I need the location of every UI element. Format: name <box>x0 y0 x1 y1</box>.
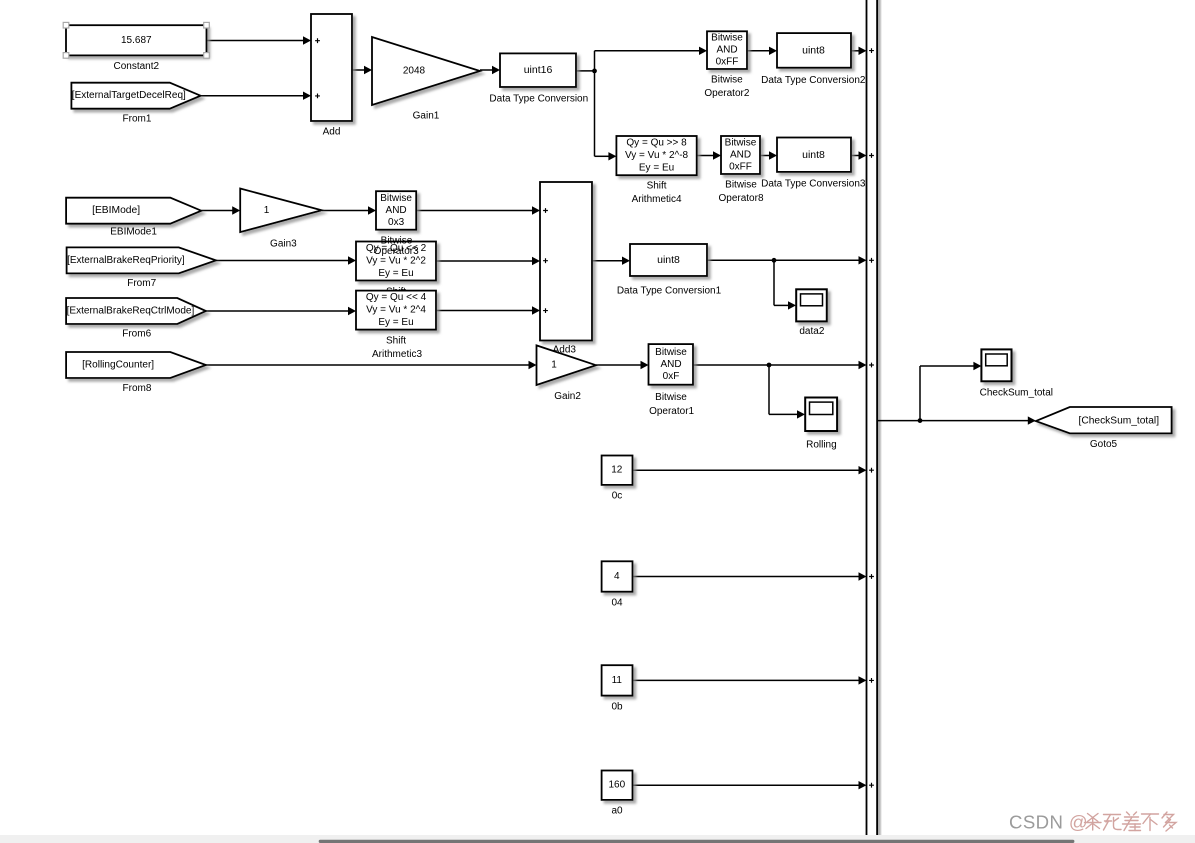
svg-text:From1: From1 <box>123 114 152 125</box>
svg-text:[EBIMode]: [EBIMode] <box>92 205 140 216</box>
svg-text:0xF: 0xF <box>663 371 680 382</box>
svg-text:Operator8: Operator8 <box>718 193 763 204</box>
svg-text:0b: 0b <box>611 701 623 712</box>
svg-text:0x3: 0x3 <box>388 217 405 228</box>
svg-text:160: 160 <box>608 780 625 791</box>
svg-text:EBIMode1: EBIMode1 <box>110 226 157 237</box>
svg-text:a0: a0 <box>611 806 623 817</box>
svg-text:Gain2: Gain2 <box>554 391 581 402</box>
svg-text:Arithmetic3: Arithmetic3 <box>372 349 422 360</box>
svg-text:[ExternalTargetDecelReq]: [ExternalTargetDecelReq] <box>72 90 186 101</box>
svg-text:Operator3: Operator3 <box>374 246 419 257</box>
svg-text:Data Type Conversion1: Data Type Conversion1 <box>617 285 722 296</box>
svg-text:Operator1: Operator1 <box>649 406 694 417</box>
svg-text:AND: AND <box>386 205 407 216</box>
svg-text:uint8: uint8 <box>657 254 680 266</box>
svg-text:Ey = Eu: Ey = Eu <box>378 317 413 328</box>
svg-text:Gain1: Gain1 <box>413 111 440 122</box>
svg-text:Data Type Conversion: Data Type Conversion <box>489 93 588 104</box>
svg-text:Gain3: Gain3 <box>270 239 297 250</box>
svg-text:Bitwise: Bitwise <box>725 180 757 191</box>
svg-text:data2: data2 <box>799 326 824 337</box>
svg-text:Vy = Vu * 2^-8: Vy = Vu * 2^-8 <box>625 150 689 161</box>
svg-text:Bitwise: Bitwise <box>711 33 743 44</box>
svg-text:From8: From8 <box>123 383 152 394</box>
svg-text:0xFF: 0xFF <box>729 162 752 173</box>
svg-text:Arithmetic4: Arithmetic4 <box>632 194 682 205</box>
svg-text:Qy = Qu >> 8: Qy = Qu >> 8 <box>626 138 687 149</box>
svg-text:Constant2: Constant2 <box>114 61 160 72</box>
svg-text:[ExternalBrakeReqPriority]: [ExternalBrakeReqPriority] <box>67 255 185 266</box>
svg-text:AND: AND <box>730 150 751 161</box>
svg-text:AND: AND <box>660 359 681 370</box>
svg-text:Ey = Eu: Ey = Eu <box>639 163 674 174</box>
svg-text:Bitwise: Bitwise <box>381 236 413 247</box>
svg-text:12: 12 <box>611 465 623 476</box>
svg-text:Add: Add <box>323 127 341 138</box>
svg-text:Goto5: Goto5 <box>1090 439 1118 450</box>
svg-text:CheckSum_total: CheckSum_total <box>980 387 1053 398</box>
svg-text:Ey = Eu: Ey = Eu <box>378 268 413 279</box>
svg-text:Shift: Shift <box>647 181 667 192</box>
svg-text:uint16: uint16 <box>524 64 553 76</box>
svg-text:Bitwise: Bitwise <box>725 138 757 149</box>
svg-text:uint8: uint8 <box>802 45 825 57</box>
svg-text:Operator2: Operator2 <box>704 88 749 99</box>
svg-text:Bitwise: Bitwise <box>655 347 687 358</box>
svg-text:2048: 2048 <box>403 66 426 77</box>
svg-text:[ExternalBrakeReqCtrlMode]: [ExternalBrakeReqCtrlMode] <box>67 306 195 317</box>
svg-text:AND: AND <box>716 45 737 56</box>
svg-text:Rolling: Rolling <box>806 439 837 450</box>
svg-text:Bitwise: Bitwise <box>655 392 687 403</box>
svg-text:Bitwise: Bitwise <box>711 74 743 85</box>
svg-text:Vy = Vu * 2^4: Vy = Vu * 2^4 <box>366 305 426 316</box>
svg-text:Data Type Conversion3: Data Type Conversion3 <box>761 178 866 189</box>
svg-text:1: 1 <box>551 360 557 371</box>
svg-text:11: 11 <box>612 675 623 686</box>
svg-text:Shift: Shift <box>386 336 406 347</box>
svg-text:[RollingCounter]: [RollingCounter] <box>82 360 154 371</box>
svg-text:uint8: uint8 <box>802 149 825 161</box>
svg-text:From7: From7 <box>127 278 156 289</box>
svg-text:CSDN @: CSDN @ <box>1009 811 1088 832</box>
svg-text:Bitwise: Bitwise <box>380 193 412 204</box>
svg-text:Qy = Qu << 4: Qy = Qu << 4 <box>366 292 427 303</box>
svg-text:1: 1 <box>264 205 270 216</box>
svg-text:Data Type Conversion2: Data Type Conversion2 <box>761 75 866 86</box>
svg-text:04: 04 <box>611 598 623 609</box>
svg-text:4: 4 <box>614 571 620 582</box>
svg-text:15.687: 15.687 <box>121 35 152 46</box>
svg-text:0c: 0c <box>612 491 623 502</box>
svg-text:[CheckSum_total]: [CheckSum_total] <box>1079 416 1160 427</box>
svg-text:From6: From6 <box>122 329 151 340</box>
svg-text:0xFF: 0xFF <box>716 57 739 68</box>
